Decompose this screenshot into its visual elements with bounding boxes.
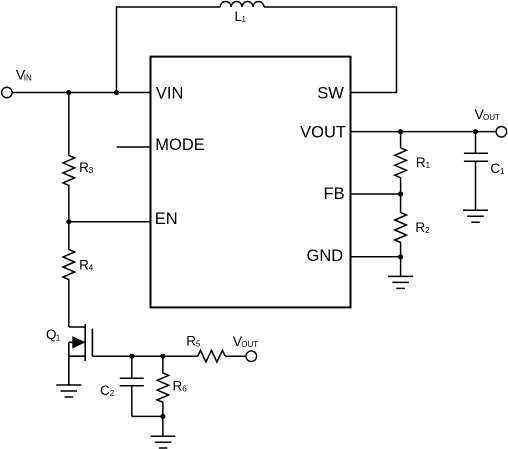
wire MODE stub — [117, 146, 151, 148]
svg-text:C: C — [100, 383, 110, 398]
svg-text:3: 3 — [89, 166, 94, 175]
junction node VOUT-C1 — [473, 129, 478, 134]
terminal VOUT right — [496, 127, 507, 138]
junction node FB — [398, 191, 403, 196]
junction node VIN-top — [114, 90, 119, 95]
wire R5 to terminal — [225, 355, 246, 357]
junction node VOUT-R1 — [398, 129, 403, 134]
svg-text:6: 6 — [182, 385, 187, 394]
capacitor C2 — [120, 356, 144, 416]
wire top loop left vertical — [117, 7, 221, 93]
svg-text:C: C — [490, 161, 500, 176]
wire VIN input — [12, 92, 150, 94]
svg-text:R: R — [173, 379, 183, 394]
ground Q1 — [56, 385, 81, 397]
wire C2 R6 bottom — [132, 415, 163, 417]
junction node gate-R6 — [160, 354, 165, 359]
wire EN — [69, 221, 151, 223]
svg-text:MODE: MODE — [155, 136, 205, 154]
wire top loop right vertical — [264, 7, 397, 93]
IC U1 — [151, 57, 351, 308]
ground GND pin — [388, 276, 413, 288]
wire FB pin — [351, 193, 401, 195]
junction node gate-C2 — [129, 354, 134, 359]
inductor L1 — [220, 2, 264, 7]
svg-text:GND: GND — [307, 247, 344, 265]
junction node C2-R6-gnd — [160, 414, 165, 419]
resistor R4 — [63, 222, 75, 327]
svg-text:2: 2 — [110, 389, 115, 398]
ground C1 — [463, 210, 488, 222]
svg-text:VIN: VIN — [156, 84, 184, 102]
svg-text:EN: EN — [155, 210, 178, 228]
junction node GND — [398, 254, 403, 259]
resistor R1 — [395, 132, 407, 194]
svg-text:R: R — [416, 155, 426, 170]
ground bottom — [151, 436, 176, 448]
transistor Q1 — [69, 324, 93, 385]
svg-text:1: 1 — [500, 167, 505, 176]
wire GND pin — [351, 256, 401, 258]
svg-text:5: 5 — [196, 340, 201, 349]
svg-text:R: R — [415, 220, 425, 235]
resistor R6 — [157, 356, 169, 416]
resistor R3 — [63, 93, 75, 222]
junction node VIN-R3 — [66, 90, 71, 95]
resistor R2 — [395, 194, 407, 257]
svg-text:OUT: OUT — [241, 340, 258, 349]
wire GND to ground — [400, 257, 402, 277]
svg-text:2: 2 — [425, 226, 430, 235]
junction node EN — [66, 219, 71, 224]
svg-text:R: R — [186, 334, 196, 349]
svg-text:IN: IN — [24, 74, 32, 83]
svg-text:OUT: OUT — [483, 113, 500, 122]
terminal VIN — [2, 87, 13, 98]
svg-text:1: 1 — [426, 161, 431, 170]
svg-text:4: 4 — [89, 263, 94, 272]
resistor R5 — [198, 350, 226, 362]
svg-text:VOUT: VOUT — [300, 123, 346, 141]
svg-text:SW: SW — [317, 85, 344, 103]
wire to bottom ground — [162, 416, 164, 436]
svg-text:R: R — [79, 257, 89, 272]
svg-text:1: 1 — [242, 15, 247, 24]
wire Q1 gate to output — [92, 355, 197, 357]
wire VOUT pin — [351, 131, 497, 133]
capacitor C1 — [464, 132, 488, 211]
svg-text:FB: FB — [324, 185, 345, 203]
svg-text:R: R — [79, 160, 89, 175]
svg-text:1: 1 — [56, 334, 61, 343]
terminal VOUT bottom — [246, 351, 257, 362]
